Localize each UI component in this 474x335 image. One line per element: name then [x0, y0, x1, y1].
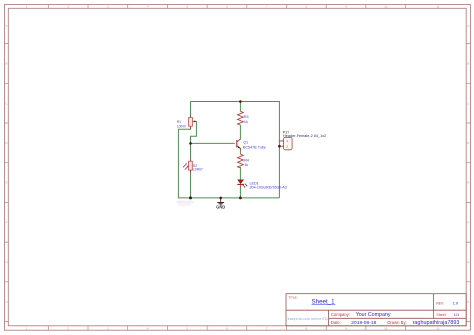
svg-text:G: G: [5, 260, 8, 264]
svg-text:Header-Female-2.54_1x2: Header-Female-2.54_1x2: [283, 134, 326, 138]
svg-text:B: B: [467, 62, 469, 66]
svg-text:8: 8: [306, 5, 308, 9]
svg-text:H: H: [5, 300, 7, 304]
svg-text:9: 9: [345, 326, 347, 330]
svg-text:1k: 1k: [244, 163, 248, 167]
svg-text:D: D: [5, 141, 8, 145]
svg-text:Company:: Company:: [331, 312, 350, 317]
svg-text:easyeda.com online EDA: easyeda.com online EDA: [288, 317, 331, 321]
svg-text:1: 1: [26, 326, 28, 330]
svg-text:7: 7: [266, 5, 268, 9]
svg-text:R1: R1: [177, 120, 181, 124]
svg-text:R4: R4: [244, 158, 249, 162]
svg-text:B: B: [5, 62, 7, 66]
svg-text:1: 1: [26, 5, 28, 9]
svg-text:A: A: [467, 24, 470, 28]
svg-text:raghupathiraja7893: raghupathiraja7893: [413, 320, 460, 326]
svg-text:204-10SURD/S530-A3: 204-10SURD/S530-A3: [250, 185, 287, 189]
svg-text:GND: GND: [216, 204, 225, 209]
svg-text:Drawn By:: Drawn By:: [387, 320, 406, 325]
svg-text:REV:: REV:: [436, 301, 444, 305]
svg-text:3: 3: [107, 326, 109, 330]
svg-text:2: 2: [67, 5, 69, 9]
svg-text:7: 7: [266, 326, 268, 330]
svg-text:2019-08-18: 2019-08-18: [351, 320, 376, 326]
svg-text:E: E: [467, 181, 469, 185]
svg-text:9: 9: [345, 5, 347, 9]
svg-text:2: 2: [67, 326, 69, 330]
svg-text:5: 5: [186, 5, 188, 9]
svg-text:H: H: [467, 300, 469, 304]
svg-text:11: 11: [436, 5, 439, 9]
svg-text:3: 3: [107, 5, 109, 9]
svg-text:1k: 1k: [244, 120, 248, 124]
svg-text:Sheet:: Sheet:: [436, 313, 446, 317]
svg-text:F: F: [467, 220, 469, 224]
svg-text:C: C: [467, 101, 470, 105]
svg-text:C: C: [5, 101, 8, 105]
svg-text:BC547B Tube: BC547B Tube: [243, 145, 266, 149]
svg-text:6: 6: [226, 5, 228, 9]
svg-text:8: 8: [306, 326, 308, 330]
svg-text:E: E: [5, 181, 7, 185]
svg-text:4: 4: [147, 5, 149, 9]
svg-text:Date:: Date:: [331, 320, 341, 325]
svg-text:TITLE:: TITLE:: [288, 295, 297, 299]
svg-text:11: 11: [436, 326, 439, 330]
svg-text:Your Company: Your Company: [356, 312, 391, 318]
svg-text:5: 5: [186, 326, 188, 330]
svg-text:F: F: [5, 220, 7, 224]
svg-text:1/1: 1/1: [454, 312, 459, 317]
svg-text:10: 10: [384, 326, 388, 330]
svg-text:R3: R3: [244, 115, 249, 119]
svg-text:1.0: 1.0: [453, 300, 459, 305]
svg-text:D: D: [467, 141, 470, 145]
svg-text:Q1: Q1: [243, 141, 248, 145]
svg-text:10: 10: [384, 5, 388, 9]
svg-text:10000: 10000: [177, 125, 186, 129]
svg-text:G: G: [467, 260, 470, 264]
svg-text:4: 4: [147, 326, 149, 330]
svg-text:6: 6: [226, 326, 228, 330]
svg-text:LDR07: LDR07: [193, 167, 203, 171]
